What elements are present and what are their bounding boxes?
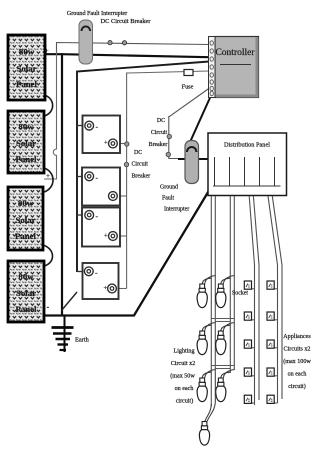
lamp bulb row y=284 right [216, 284, 226, 308]
wire socket circuit pair S2 [268, 196, 282, 403]
svg-text:+: + [104, 233, 108, 240]
ground fault interrupter 2 capsule [185, 141, 199, 184]
battery B4 [83, 263, 119, 299]
svg-text:(max 100w: (max 100w [283, 358, 311, 365]
svg-text:Lighting: Lighting [174, 349, 195, 355]
solar panel 3 (80w) [8, 187, 43, 250]
DC circuit breaker 1 contacts [108, 41, 127, 45]
svg-text:+: + [45, 47, 49, 55]
svg-text:Circuit: Circuit [151, 130, 168, 136]
svg-text:+: + [104, 140, 108, 147]
controller terminal dots [210, 41, 213, 96]
wire earth diagonal from distribution panel to earth junction [39, 191, 209, 316]
wire series arc panel3-panel4 [43, 245, 53, 266]
svg-text:DC: DC [134, 150, 142, 156]
wire battery4-negative link to earth junction [62, 292, 78, 311]
svg-text:Controller: Controller [215, 48, 255, 58]
svg-text:Earth: Earth [75, 337, 90, 344]
wire mid vertical with crossover jog [44, 50, 57, 179]
svg-text:circuit): circuit) [288, 383, 306, 390]
label Lighting Circuit x2 [170, 349, 195, 405]
wire GFI2 to distribution panel (thick) [178, 158, 208, 160]
DC circuit breaker 2 contacts (battery bus) [124, 142, 129, 167]
lamp hooks row y=378 [202, 370, 215, 379]
wire battery bus stubs to + terminals [113, 144, 127, 289]
wire lighting circuit pair L2 [230, 196, 234, 373]
distribution panel [208, 133, 287, 196]
wire lighting jumpers [211, 319, 234, 369]
wire series arc panel1-panel2 [44, 95, 53, 116]
solar panel 1 (80w) [8, 35, 45, 100]
svg-text:Solar: Solar [16, 288, 36, 298]
svg-text:Fault: Fault [162, 196, 174, 202]
svg-text:Fuse: Fuse [182, 84, 194, 91]
svg-text:DC: DC [157, 118, 165, 124]
svg-text:Appliances: Appliances [283, 334, 311, 340]
wire battery-positive from controller through fuse down right battery bus [127, 71, 209, 289]
svg-text:Solar: Solar [15, 215, 35, 225]
svg-text:Circuits x2: Circuits x2 [284, 347, 311, 353]
svg-text:Interrupter: Interrupter [164, 207, 189, 213]
earth symbol [52, 316, 74, 353]
svg-text:Breaker: Breaker [132, 174, 151, 180]
svg-text:+: + [104, 285, 108, 292]
lamp bulb row y=331 right [216, 331, 226, 355]
lamp bulb row y=331 left [197, 331, 207, 355]
solar panel 4 (80w) [8, 261, 44, 322]
svg-text:-: - [47, 303, 50, 312]
svg-text:circuit): circuit) [176, 398, 194, 405]
battery B2 [82, 168, 120, 206]
svg-text:80w: 80w [18, 272, 34, 282]
svg-text:80w: 80w [19, 47, 35, 57]
wire lighting circuit pair L1 [211, 196, 215, 406]
wire series arc panel2-panel3 [44, 168, 53, 192]
svg-text:Solar: Solar [16, 64, 36, 74]
svg-text:on each: on each [175, 386, 194, 392]
wire PV- thick bus: vertical x62 and horizontal to controller [44, 53, 209, 315]
svg-text:on each: on each [288, 372, 307, 378]
svg-text:Socket: Socket [232, 291, 248, 297]
svg-text:Panel: Panel [15, 231, 37, 241]
svg-text:Panel: Panel [16, 79, 38, 89]
svg-text:DC Circuit Breaker: DC Circuit Breaker [100, 18, 151, 25]
wire battery bus stubs to - terminals [77, 126, 88, 272]
svg-text:Panel: Panel [15, 154, 37, 164]
wire controller to DC breaker to GFI2 (thin) [169, 88, 210, 159]
DC circuit breaker 3 contacts (load) [166, 134, 171, 156]
socket circuit S1 sockets [244, 281, 254, 403]
svg-text:Ground Fault Interrupter: Ground Fault Interrupter [67, 11, 127, 17]
lamp bulb row y=284 left [197, 284, 207, 308]
lamp hooks row y=284 [202, 276, 215, 285]
svg-text:Panel: Panel [15, 304, 37, 314]
battery B3 [82, 208, 120, 247]
wire PV+ from panel 1 to controller through GFI and breaker [57, 43, 210, 55]
svg-text:Breaker: Breaker [149, 142, 168, 148]
svg-text:Ground: Ground [160, 185, 178, 191]
label Ground Fault Interrupter (2) [160, 185, 189, 213]
label DC Circuit Breaker (load) [149, 118, 168, 148]
svg-text:+: + [46, 172, 50, 180]
lamp bulb bottom single [199, 422, 209, 446]
svg-text:(max 50w: (max 50w [170, 373, 195, 380]
solar panel 2 (80w) [8, 111, 44, 173]
socket circuit S2 sockets [267, 281, 278, 403]
wire socket circuit pair S1 [249, 196, 259, 405]
svg-text:Solar: Solar [16, 138, 36, 148]
lamp bulb row y=378 right [216, 378, 226, 402]
svg-text:80w: 80w [18, 198, 34, 208]
lamp hooks row y=331 [202, 323, 215, 332]
battery B1 [83, 116, 121, 154]
ground fault interrupter 1 capsule [79, 20, 93, 64]
fuse F1 [184, 70, 193, 76]
label Appliances Circuits x2 [283, 334, 311, 390]
wire controller to GFI2 (thick) [191, 96, 212, 142]
lamp hook bottom single [205, 372, 216, 422]
svg-text:Distribution Panel: Distribution Panel [224, 142, 270, 149]
wire battery-negative thick from controller to left battery bus [77, 62, 209, 273]
svg-text:Circuit x2: Circuit x2 [171, 361, 196, 367]
label DC Circuit Breaker (battery) [132, 150, 151, 180]
controller U1 [209, 37, 259, 98]
svg-text:Circuit: Circuit [132, 162, 149, 168]
lamp bulb row y=378 left [197, 378, 207, 402]
svg-text:80w: 80w [18, 122, 34, 132]
